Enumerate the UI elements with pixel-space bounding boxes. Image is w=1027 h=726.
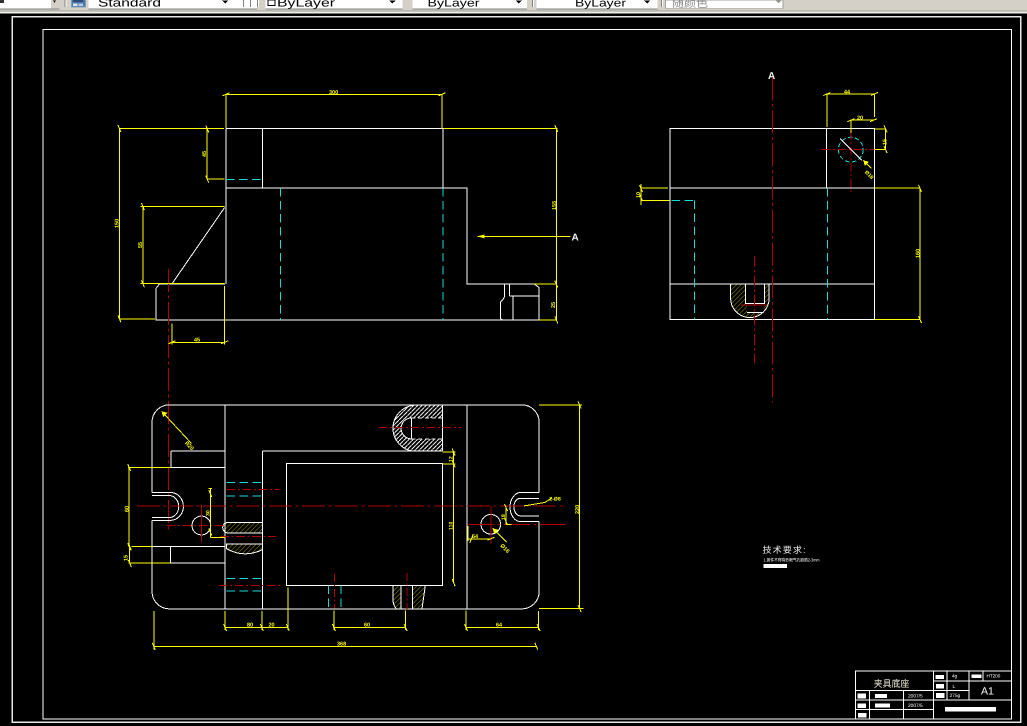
side view outline [670, 129, 875, 320]
dim 54 right circle [468, 526, 494, 543]
svg-text:A: A [768, 71, 775, 82]
svg-text:30: 30 [206, 510, 212, 516]
front view top block divider [262, 129, 264, 189]
top view rounded rectangle outline [152, 405, 539, 609]
svg-text:10: 10 [636, 192, 642, 198]
svg-text:ByLayer: ByLayer [277, 0, 335, 9]
dim 20 side [847, 119, 877, 133]
top view centerline right circle v [490, 506, 492, 544]
dim bracket x453 (pocket) [443, 449, 456, 587]
top view step line y546 [152, 546, 225, 548]
toolbar separator [64, 0, 66, 7]
side view hole diagonal [840, 139, 862, 161]
top view main centerline [137, 505, 565, 507]
technical requirements line 2 block [764, 564, 787, 568]
side view section centerline A [772, 78, 774, 403]
top view centerline left circle v [200, 505, 202, 543]
leader right slot [524, 498, 552, 506]
front view bolt slot cavity top [510, 295, 539, 297]
svg-text:A1: A1 [981, 686, 994, 698]
svg-text:54: 54 [472, 534, 479, 540]
svg-text:64: 64 [496, 623, 503, 629]
toolbar strip (cut off at top of window) [0, 0, 1027, 14]
dim 15 side right [874, 125, 887, 153]
top view left circle [192, 516, 211, 535]
top view bottom band hatch [227, 544, 263, 554]
combo box 5 "ByLayer" [537, 0, 658, 10]
front view step line full [226, 187, 443, 189]
svg-text:L: L [953, 684, 956, 690]
top view top slot outer arc [393, 405, 413, 451]
svg-text:A: A [572, 233, 579, 244]
dim 55 wedge [141, 203, 225, 287]
side view U-slot hatch [731, 284, 770, 317]
top view left slot inner [152, 496, 179, 518]
dim 220 right [539, 401, 584, 612]
dim 150 left [118, 125, 224, 322]
top view bottom slot right patch [412, 585, 425, 609]
side view U-slot lower line [747, 311, 764, 313]
svg-text:2007/5: 2007/5 [908, 703, 923, 709]
top view hidden lines upper pair [227, 482, 263, 496]
side view U-slot inner slot [745, 284, 764, 303]
top view top slot right edge [441, 405, 443, 451]
side view hole circle [838, 137, 863, 162]
top view right circle [481, 515, 501, 535]
svg-text:ByLayer: ByLayer [575, 0, 626, 9]
side view hidden line boss [826, 188, 828, 319]
top view top slot inner dashes [412, 418, 443, 439]
front view centerline vertical [168, 269, 170, 530]
top view centerline y585 [218, 584, 280, 586]
svg-text:45: 45 [194, 338, 200, 344]
svg-text:44: 44 [844, 89, 851, 95]
combo box 3 "ByLayer" with square icon [266, 0, 403, 10]
dim 368 overall bottom [152, 611, 538, 650]
top view right slot inner [514, 498, 539, 516]
svg-text:18: 18 [501, 514, 507, 520]
title block outer [856, 671, 1012, 719]
front view hidden line top block [226, 179, 263, 181]
top view centerline bottom hole v1 [334, 574, 336, 609]
toolbar separator [661, 0, 663, 7]
top view pocket rectangle [287, 463, 443, 585]
svg-text:夹具底座: 夹具底座 [874, 678, 910, 690]
title block horizontal lines left section [856, 689, 934, 691]
dim 20 bottom [262, 624, 290, 631]
svg-text:150: 150 [115, 219, 121, 228]
front view bolt slot cavity left [512, 296, 514, 320]
dim 160 side right [875, 185, 922, 323]
svg-text:155: 155 [552, 201, 558, 210]
top view top slot inner vertical [411, 418, 413, 439]
top view vertical line x262 [261, 451, 263, 609]
side view base top line [670, 283, 875, 285]
dim 44 side top [823, 93, 878, 128]
svg-text:Standard: Standard [98, 0, 161, 9]
toolbar separator [532, 0, 534, 7]
top view bottom slot left patch [393, 585, 401, 609]
front view hidden line right [442, 188, 444, 320]
svg-text:2-Ø8: 2-Ø8 [549, 497, 561, 503]
dim 80 bottom [224, 624, 264, 631]
dim 64 bottom [465, 624, 541, 631]
svg-text:275g: 275g [950, 693, 961, 699]
svg-text:60: 60 [364, 623, 370, 629]
side view U-slot outer outline [731, 284, 770, 317]
top view top slot inner [401, 418, 412, 439]
top view hidden lines lower pair [226, 579, 262, 592]
svg-text:45: 45 [202, 151, 208, 157]
svg-text:12: 12 [449, 456, 455, 462]
combo box 6 "ByColor" (disabled) [666, 0, 784, 10]
side view hole centerline h [822, 149, 882, 151]
front view hidden line left [280, 188, 282, 320]
bottom dim row extensions [225, 588, 538, 631]
front view bolt slot neck right [509, 284, 511, 296]
top view centerline y525 right [468, 523, 566, 525]
dim 60 left [128, 464, 171, 550]
dim 10 side left [640, 184, 671, 205]
dim 60 bottom [332, 624, 407, 631]
combo box 1 (leftmost, cut) [0, 0, 60, 10]
svg-text:160: 160 [915, 249, 921, 258]
dim 300 top [223, 93, 446, 128]
dim 15 left [128, 543, 170, 567]
toolbar grip separators [243, 0, 259, 7]
blue toolbar icon [71, 0, 86, 7]
section arrow A (front view) [477, 235, 570, 237]
side view slot centerline horizontal [741, 304, 766, 306]
signature bar [945, 707, 996, 711]
top view vertical line x225 [224, 405, 226, 609]
side view boss edge [825, 129, 827, 189]
svg-text:技术要求:: 技术要求: [763, 545, 807, 555]
dim 45 upper [206, 125, 225, 182]
side view step line [670, 187, 875, 189]
side view hidden line left slot [694, 201, 696, 320]
side view slot centerline vertical [754, 256, 756, 363]
svg-text:HT200: HT200 [987, 673, 1001, 678]
svg-text:55: 55 [138, 242, 144, 248]
svg-text:300: 300 [329, 90, 338, 96]
top view step connector x171 [170, 451, 172, 468]
svg-text:20: 20 [269, 623, 275, 629]
title block vertical lines [868, 690, 870, 719]
front view bolt slot neck left [500, 284, 504, 320]
redacted boxes [857, 675, 996, 718]
top view centerline y489 [227, 489, 280, 491]
svg-text:20: 20 [857, 116, 863, 122]
svg-text:220: 220 [575, 505, 581, 514]
svg-text:60: 60 [124, 506, 130, 512]
svg-text:368: 368 [337, 642, 346, 648]
svg-text:15: 15 [883, 139, 889, 145]
dim 45 bottom [168, 286, 228, 345]
top view centerline top slot [379, 427, 461, 429]
svg-text:80: 80 [247, 623, 253, 629]
svg-text:2007/5: 2007/5 [908, 693, 923, 699]
dim stack right (155/25) [443, 125, 558, 323]
svg-text:110: 110 [449, 522, 455, 530]
side view hole leader [863, 160, 871, 168]
svg-text:25: 25 [551, 302, 557, 308]
top view step line y451 left [171, 450, 225, 452]
top view centerline y536 [220, 536, 276, 538]
svg-text:1.铸件不得有砂眼气孔缺陷2-3mm: 1.铸件不得有砂眼气孔缺陷2-3mm [764, 557, 820, 562]
combo box 2 "Standard" [89, 0, 258, 10]
top view top slot hatch [393, 405, 442, 451]
leader right circle diag [493, 528, 507, 542]
top view left slot outer [152, 492, 183, 520]
svg-text:4g: 4g [952, 673, 958, 679]
top view tongue hatch [223, 522, 263, 533]
top view hidden hole bottom [329, 585, 341, 609]
svg-text:ByLayer: ByLayer [428, 0, 480, 9]
svg-text:15: 15 [124, 555, 130, 561]
front view base top edge (right part) [467, 283, 534, 285]
top view step line y563 [171, 562, 225, 564]
side view hidden line left slot top [672, 200, 695, 202]
title block horizontal lines right section [934, 680, 1012, 682]
leader R20 corner [162, 411, 192, 443]
top view vertical line x467 [466, 405, 468, 609]
top view centerline bottom hole v2 [406, 573, 408, 610]
svg-text:随颜色: 随颜色 [672, 0, 708, 10]
dim bracket left x210 [209, 489, 226, 538]
front view body outline [156, 129, 539, 320]
front view body left edge [225, 129, 227, 285]
dim bracket right circle [505, 504, 512, 525]
front view base top edge under wedge [159, 283, 225, 285]
top view right slot outer [510, 492, 539, 521]
top view centerline y525 left [166, 525, 224, 527]
top view step line y451 mid [262, 450, 442, 452]
side view hole centerline v [850, 131, 852, 194]
front view wedge diagonal [172, 208, 225, 284]
combo box 4 "ByLayer" [413, 0, 528, 10]
top view step connector x170 [170, 547, 172, 564]
top view step line y467 [152, 466, 225, 468]
